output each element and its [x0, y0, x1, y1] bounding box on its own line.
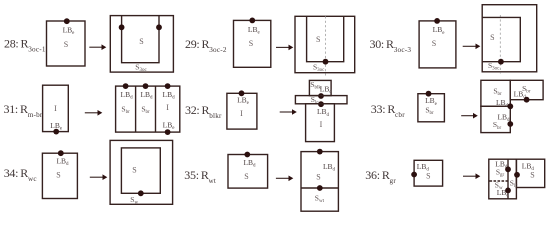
rule 33 arrow: [461, 115, 474, 117]
rule 29 RHS dot bottom: [323, 59, 329, 65]
rule 32 LHS dot LBe: [239, 90, 245, 96]
svg-text:S: S: [530, 171, 534, 180]
rule 28 RHS dot left: [119, 24, 125, 30]
rule 28 RHS dot right: [156, 24, 162, 30]
rule 35 RHS dot top: [317, 149, 323, 155]
rule 33 LHS dot LBe: [426, 91, 432, 97]
svg-text:S: S: [316, 35, 320, 44]
rule 36 RHS dot divider lower: [505, 188, 511, 194]
rule 29 LHS dot LBe: [249, 18, 255, 24]
rule 36 LHS rect: [414, 160, 443, 186]
svg-text:S: S: [490, 33, 494, 42]
rule 32 RHS bar rect: [295, 96, 347, 104]
svg-text:S: S: [64, 40, 68, 49]
rule 33 RHS dot bottom right edge: [507, 121, 513, 127]
rule 33 RHS bottom square: [481, 106, 510, 132]
rule 28 arrow: [89, 46, 102, 48]
rule 35 RHS rect: [301, 152, 338, 212]
rule 29 LHS rect: [234, 20, 271, 67]
rule 32 RHS dot lower: [318, 101, 324, 107]
rule 29 RHS outer rect: [295, 16, 355, 72]
svg-text:S: S: [426, 172, 430, 181]
rule 35 RHS divider: [301, 187, 338, 189]
svg-text:I: I: [320, 120, 323, 129]
rule 33 RHS top-right rect: [510, 80, 543, 99]
svg-text:S: S: [316, 173, 320, 182]
rule 30 LHS rect: [419, 21, 456, 68]
svg-text:I: I: [240, 109, 243, 118]
rule 31 RHS dot col3 bottom: [165, 129, 171, 135]
svg-text:S: S: [56, 171, 60, 180]
rule 34 RHS outer rect: [110, 140, 173, 204]
rule 34 LHS dot LBd: [58, 150, 64, 156]
rule 28 LHS dot LBe: [64, 18, 70, 24]
rule 32 RHS dot upper: [318, 93, 324, 99]
rule 32 LHS rect: [227, 93, 257, 129]
rule 30 RHS dot bottom: [498, 59, 504, 65]
rule 36 RHS dot right square edge: [514, 172, 520, 178]
rule 31 RHS dot col1: [123, 83, 129, 89]
rule 30 RHS outer rect: [482, 5, 537, 72]
rule 29 arrow: [276, 46, 290, 48]
rule 36 RHS dot divider upper: [505, 166, 511, 172]
rule 32 RHS tall rect: [306, 104, 335, 142]
rule 30 RHS inner C shape: [482, 17, 520, 61]
rule 34 arrow: [90, 176, 104, 178]
rule 33 LHS rect: [418, 94, 445, 122]
svg-text:S: S: [139, 37, 143, 46]
svg-text:S: S: [432, 39, 436, 48]
rule 35 LHS dot LBd: [244, 152, 250, 158]
rule 29 RHS inner U shape: [307, 16, 344, 61]
rule 33 RHS dot TR bottom: [524, 97, 530, 103]
rule 31 arrow: [85, 112, 99, 114]
rule 34 RHS inner rect: [121, 148, 160, 193]
rule 32 RHS top small rect: [309, 80, 331, 95]
rule 33 RHS top-left square: [481, 80, 510, 106]
svg-text:S: S: [244, 172, 248, 181]
rule 31 RHS dot col2: [143, 83, 149, 89]
rule 28 LHS rect: [47, 21, 86, 66]
svg-text:I: I: [166, 103, 169, 112]
svg-text:S: S: [132, 166, 136, 175]
rule 30 LHS dot LBe: [434, 18, 440, 24]
rule 34 LHS rect: [42, 153, 77, 198]
rule 36 LHS dot left edge: [411, 172, 417, 178]
svg-text:I: I: [54, 104, 57, 113]
rule 28 RHS outer rect: [110, 16, 173, 73]
svg-text:S: S: [249, 39, 253, 48]
rule 36 RHS dashed line: [490, 180, 509, 182]
rule 28 RHS inner U shape: [122, 16, 159, 63]
rule 29 RHS dashed axis: [325, 16, 327, 75]
rule 34 RHS dot bottom: [138, 190, 144, 196]
rule 31 RHS outer rect: [116, 86, 180, 132]
rule 35 RHS dot middle: [317, 185, 323, 191]
rule 31 RHS divider 1: [135, 86, 137, 132]
rule 31 RHS divider 2: [155, 86, 157, 132]
rule 35 LHS rect: [228, 155, 268, 189]
rule 35 arrow: [276, 177, 290, 179]
rule 36 RHS right square: [516, 159, 544, 187]
rule 36 RHS left tall rect: [489, 159, 517, 199]
rule 32 arrow: [280, 111, 293, 113]
rule 33 RHS dot TL corner: [507, 103, 513, 109]
rule 31 RHS dot col3: [165, 83, 171, 89]
rule 30 arrow: [463, 45, 477, 47]
rule 30 RHS dashed axis: [499, 15, 501, 74]
rule 36 arrow: [463, 175, 477, 177]
rule 36 RHS vertical divider: [507, 159, 509, 199]
rule 31 LHS rect: [43, 85, 69, 131]
rule 31 LHS dot bottom: [53, 129, 59, 135]
